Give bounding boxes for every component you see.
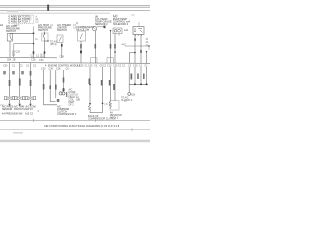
connector blob on S3 wire: [61, 44, 63, 47]
label compressor de-ice switch: [76, 22, 94, 31]
svg-text:4|: 4|: [76, 22, 78, 25]
svg-text:( C: ( C: [105, 103, 109, 106]
wire L3 tail: [30, 100, 32, 104]
wire L1 down: [9, 63, 11, 97]
wire S3 down: [61, 43, 63, 59]
switch S2: [43, 32, 45, 39]
wire L3 label: [30, 71, 32, 76]
svg-text:A10 C2: A10 C2: [25, 112, 34, 115]
resistor zigzag: [109, 101, 112, 109]
node FR4: [140, 83, 142, 85]
ground line L1: [0, 104, 4, 106]
svg-text:C28: C28: [56, 68, 61, 71]
engine control module top line: [0, 56, 57, 59]
switch S2 box: [42, 33, 48, 41]
thermal switch box S3: [57, 35, 63, 43]
connector bracket B1: [91, 58, 98, 64]
svg-text:CLUTCH 2: CLUTCH 2: [121, 100, 133, 102]
wire R2 label: [101, 80, 103, 86]
pin labels below module top line: [7, 58, 44, 62]
wire FR1 down: [114, 67, 116, 101]
connector bracket B2: [107, 58, 114, 64]
engine control module bottom line: [0, 62, 150, 65]
svg-text:4A: 4A: [0, 24, 3, 27]
branch arrow on S2 wire: [45, 40, 48, 42]
svg-text:C30: C30: [88, 65, 93, 68]
wire C4 down: [63, 70, 65, 92]
relay box K1: [133, 27, 144, 35]
wire S2 down: [44, 39, 46, 58]
wire L2 label: [19, 79, 21, 86]
wire FR5 down: [146, 67, 148, 84]
wire from PS1 to node: [10, 32, 34, 34]
wire L3 down: [30, 63, 32, 97]
label A/C dual pressure switch: [38, 24, 54, 32]
svg-text:C30: C30: [133, 64, 138, 67]
right margin notes: [146, 39, 150, 47]
clutch coil circle 2: [62, 92, 65, 95]
svg-text:A28 SW: A28 SW: [14, 112, 24, 115]
tick on frame line 2b: [131, 128, 133, 131]
wire L2 tail: [19, 100, 21, 104]
wire C2 down with hook: [50, 70, 55, 102]
svg-text:C28: C28: [31, 58, 36, 61]
connector cluster wire L3: [25, 97, 35, 100]
feed line right: [125, 45, 150, 47]
node on solenoid wire: [114, 51, 116, 53]
solenoid pin tick 2: [118, 34, 120, 36]
wire relay pin2 down: [140, 35, 142, 64]
wire right edge down with arrow: [146, 51, 148, 63]
loop bottom wire: [90, 112, 103, 114]
tick on frame line: [33, 119, 35, 122]
bottom small text row left: [2, 112, 34, 115]
wire relay pin1 straight down: [134, 53, 136, 64]
wire de-ice down with connector: [80, 41, 82, 63]
bus wire top 2: [0, 12, 110, 15]
clutch coil circle 1: [59, 92, 62, 95]
wire C4 connector: [63, 88, 65, 91]
relay pin ticks: [136, 35, 142, 37]
wire FR1 label: [113, 84, 115, 90]
svg-text:SWITCH 2: SWITCH 2: [14, 108, 26, 111]
loop right riser: [102, 103, 104, 112]
wire L2 colour tag: [12, 71, 15, 74]
wire R1 down: [89, 67, 91, 104]
labels under left connectors: [2, 106, 36, 112]
svg-text:| A6B1 EA TC87 |: | A6B1 EA TC87 |: [10, 20, 30, 24]
bottom soft rule: [0, 140, 150, 142]
svg-text:ENGINE CONTROL MODULE: ENGINE CONTROL MODULE: [48, 64, 81, 67]
svg-text:SENSOR: SENSOR: [2, 108, 12, 111]
connector blob on J1 wire: [33, 51, 35, 54]
bottom frame line 2: [0, 129, 150, 131]
connector cluster wire L2: [15, 97, 25, 100]
wire mid right with arrow: [110, 30, 112, 63]
bus drop to splice: [128, 84, 130, 92]
faint header text left: [7, 11, 18, 12]
svg-text:SWITCH: SWITCH: [38, 29, 48, 32]
wire R3 label: [109, 80, 111, 86]
FR1 text below: [121, 97, 133, 103]
solenoid box with two circles: [113, 28, 122, 34]
svg-text:COMPRESSOR 2: COMPRESSOR 2: [57, 113, 77, 116]
svg-text:AIR CONDITIONING FUNCTIONAL DI: AIR CONDITIONING FUNCTIONAL DIAGRAMS (2 …: [44, 124, 120, 128]
node J2: [33, 43, 35, 45]
wire C3 label: [55, 85, 57, 90]
wire CHT label: [95, 44, 97, 49]
wire R3 down: [110, 67, 112, 101]
wire C1 down with hook: [44, 70, 57, 105]
connector tick on pin1: [134, 39, 136, 41]
clutch connector blob: [57, 99, 60, 102]
svg-text:C30: C30: [113, 64, 118, 67]
wire L1 tail: [9, 100, 11, 104]
svg-text:28B: 28B: [76, 100, 81, 102]
feed line riser: [124, 43, 126, 46]
label A/C low pressure switch: [0, 24, 20, 33]
feed stub down: [148, 46, 150, 50]
node J1: [33, 32, 35, 34]
label cyl head temp sensor: [95, 16, 112, 27]
wire L2 down: [19, 63, 21, 97]
splice circle S28: [128, 93, 131, 96]
legend text rows: [10, 15, 32, 24]
pressure switch PS1: [7, 34, 12, 42]
svg-text:4 C30: 4 C30: [77, 65, 84, 68]
clutch mark right of circles: [66, 92, 67, 97]
footer title row: [44, 124, 120, 128]
relay top stub: [138, 22, 140, 27]
ground chevron L1: [8, 104, 10, 106]
bus wire top 1: [0, 9, 150, 12]
node FR5: [146, 83, 148, 85]
svg-text:SENSOR 2: SENSOR 2: [95, 23, 108, 26]
wire FR4 label: [143, 74, 145, 80]
svg-text:C38: C38: [49, 68, 54, 71]
sensor circle CHT: [93, 27, 97, 31]
svg-text:SW 10: SW 10: [26, 108, 34, 111]
svg-text:SWITCH: SWITCH: [57, 29, 67, 32]
ground chevron L2: [19, 104, 21, 106]
tick on frame line 2: [95, 119, 97, 122]
wire C4 label: [63, 78, 65, 83]
connector cluster wire L1: [4, 97, 14, 100]
wire node J1 up: [33, 27, 35, 34]
legend dashed box: [9, 15, 34, 24]
svg-text:PART: PART: [69, 101, 76, 104]
svg-text:OF 2: OF 2: [69, 105, 75, 107]
wire C2 label: [49, 86, 51, 90]
wire L1 label: [9, 80, 11, 86]
ground chevron L3: [29, 104, 31, 106]
wire C3 down: [55, 70, 57, 98]
wire stub above module: [40, 54, 42, 58]
node R1: [89, 84, 91, 86]
wire L3 label2: [30, 80, 32, 86]
sensor lead right: [97, 26, 104, 28]
svg-text:S28: S28: [131, 95, 136, 97]
svg-text:2B: 2B: [13, 59, 16, 62]
svg-text:C30: C30: [39, 59, 44, 62]
wire CHT down: [94, 31, 96, 63]
wire relay pin1 down with branch: [130, 35, 136, 64]
wire FR3 down: [134, 67, 136, 84]
faint note below frame: [13, 132, 23, 134]
bottom frame line 1: [0, 119, 150, 121]
resistor labels: [110, 111, 122, 119]
wire node J1 down to module: [33, 33, 35, 57]
connector blob on S2 wire: [44, 51, 46, 54]
clutch labels inside: [57, 106, 69, 114]
thermistor zigzag: [88, 104, 91, 113]
wire mid right label: [110, 44, 112, 49]
solenoid wire label: [114, 44, 116, 49]
svg-text:C28: C28: [60, 56, 65, 59]
node relay branch: [134, 52, 136, 54]
wire L1 colour tag: [3, 71, 6, 74]
wire C1 label: [43, 84, 45, 90]
wire FR2 down to bus: [128, 67, 130, 84]
resistor box: [110, 101, 119, 111]
svg-text:(FB 4): (FB 4): [50, 44, 57, 46]
label thermal limiter: [57, 24, 77, 32]
svg-text:A21: A21: [124, 29, 129, 32]
de-ice switch box: [78, 31, 86, 41]
wire FR2 label: [131, 74, 133, 80]
legend side note: [36, 16, 40, 24]
clutch diode label: [88, 115, 116, 121]
wire solenoid down: [114, 34, 116, 64]
node feed right: [148, 45, 150, 47]
connector blob on pin2: [140, 50, 142, 53]
clutch label right column: [69, 89, 79, 107]
ground bus right: [129, 83, 148, 85]
wire FR4 down: [140, 67, 142, 84]
sensor lead connector: [104, 26, 106, 29]
wire R2 down: [102, 67, 104, 103]
svg-text:SOLENOID 2: SOLENOID 2: [113, 23, 129, 26]
splice label G on bus: [47, 5, 49, 11]
label evap temp control: [113, 16, 131, 27]
pin labels below module bottom line: [3, 64, 148, 70]
wire R1 label: [89, 79, 91, 85]
svg-text:C30: C30: [3, 64, 8, 67]
wire FR3 label: [137, 74, 139, 80]
svg-text:2B: 2B: [12, 54, 15, 57]
top double header rule: [0, 5, 150, 6]
node R1b: [89, 103, 91, 105]
node FR3: [134, 83, 136, 85]
wire PS1 second pin down: [13, 44, 15, 58]
pin labels above module line: [12, 51, 65, 59]
node R2b: [102, 103, 104, 105]
wire L3 colour tag: [21, 71, 24, 74]
svg-text:C10: C10: [107, 65, 112, 68]
svg-text:4A PRESS: 4A PRESS: [2, 112, 14, 115]
svg-text:SWITCH: SWITCH: [6, 30, 16, 33]
svg-text:3A: 3A: [35, 38, 38, 41]
wire PS1 bottom down: [9, 41, 11, 57]
svg-text:ASSY 2: ASSY 2: [110, 116, 119, 119]
branch wire to node J1 wire: [14, 43, 34, 45]
svg-text:28A: 28A: [7, 59, 12, 62]
